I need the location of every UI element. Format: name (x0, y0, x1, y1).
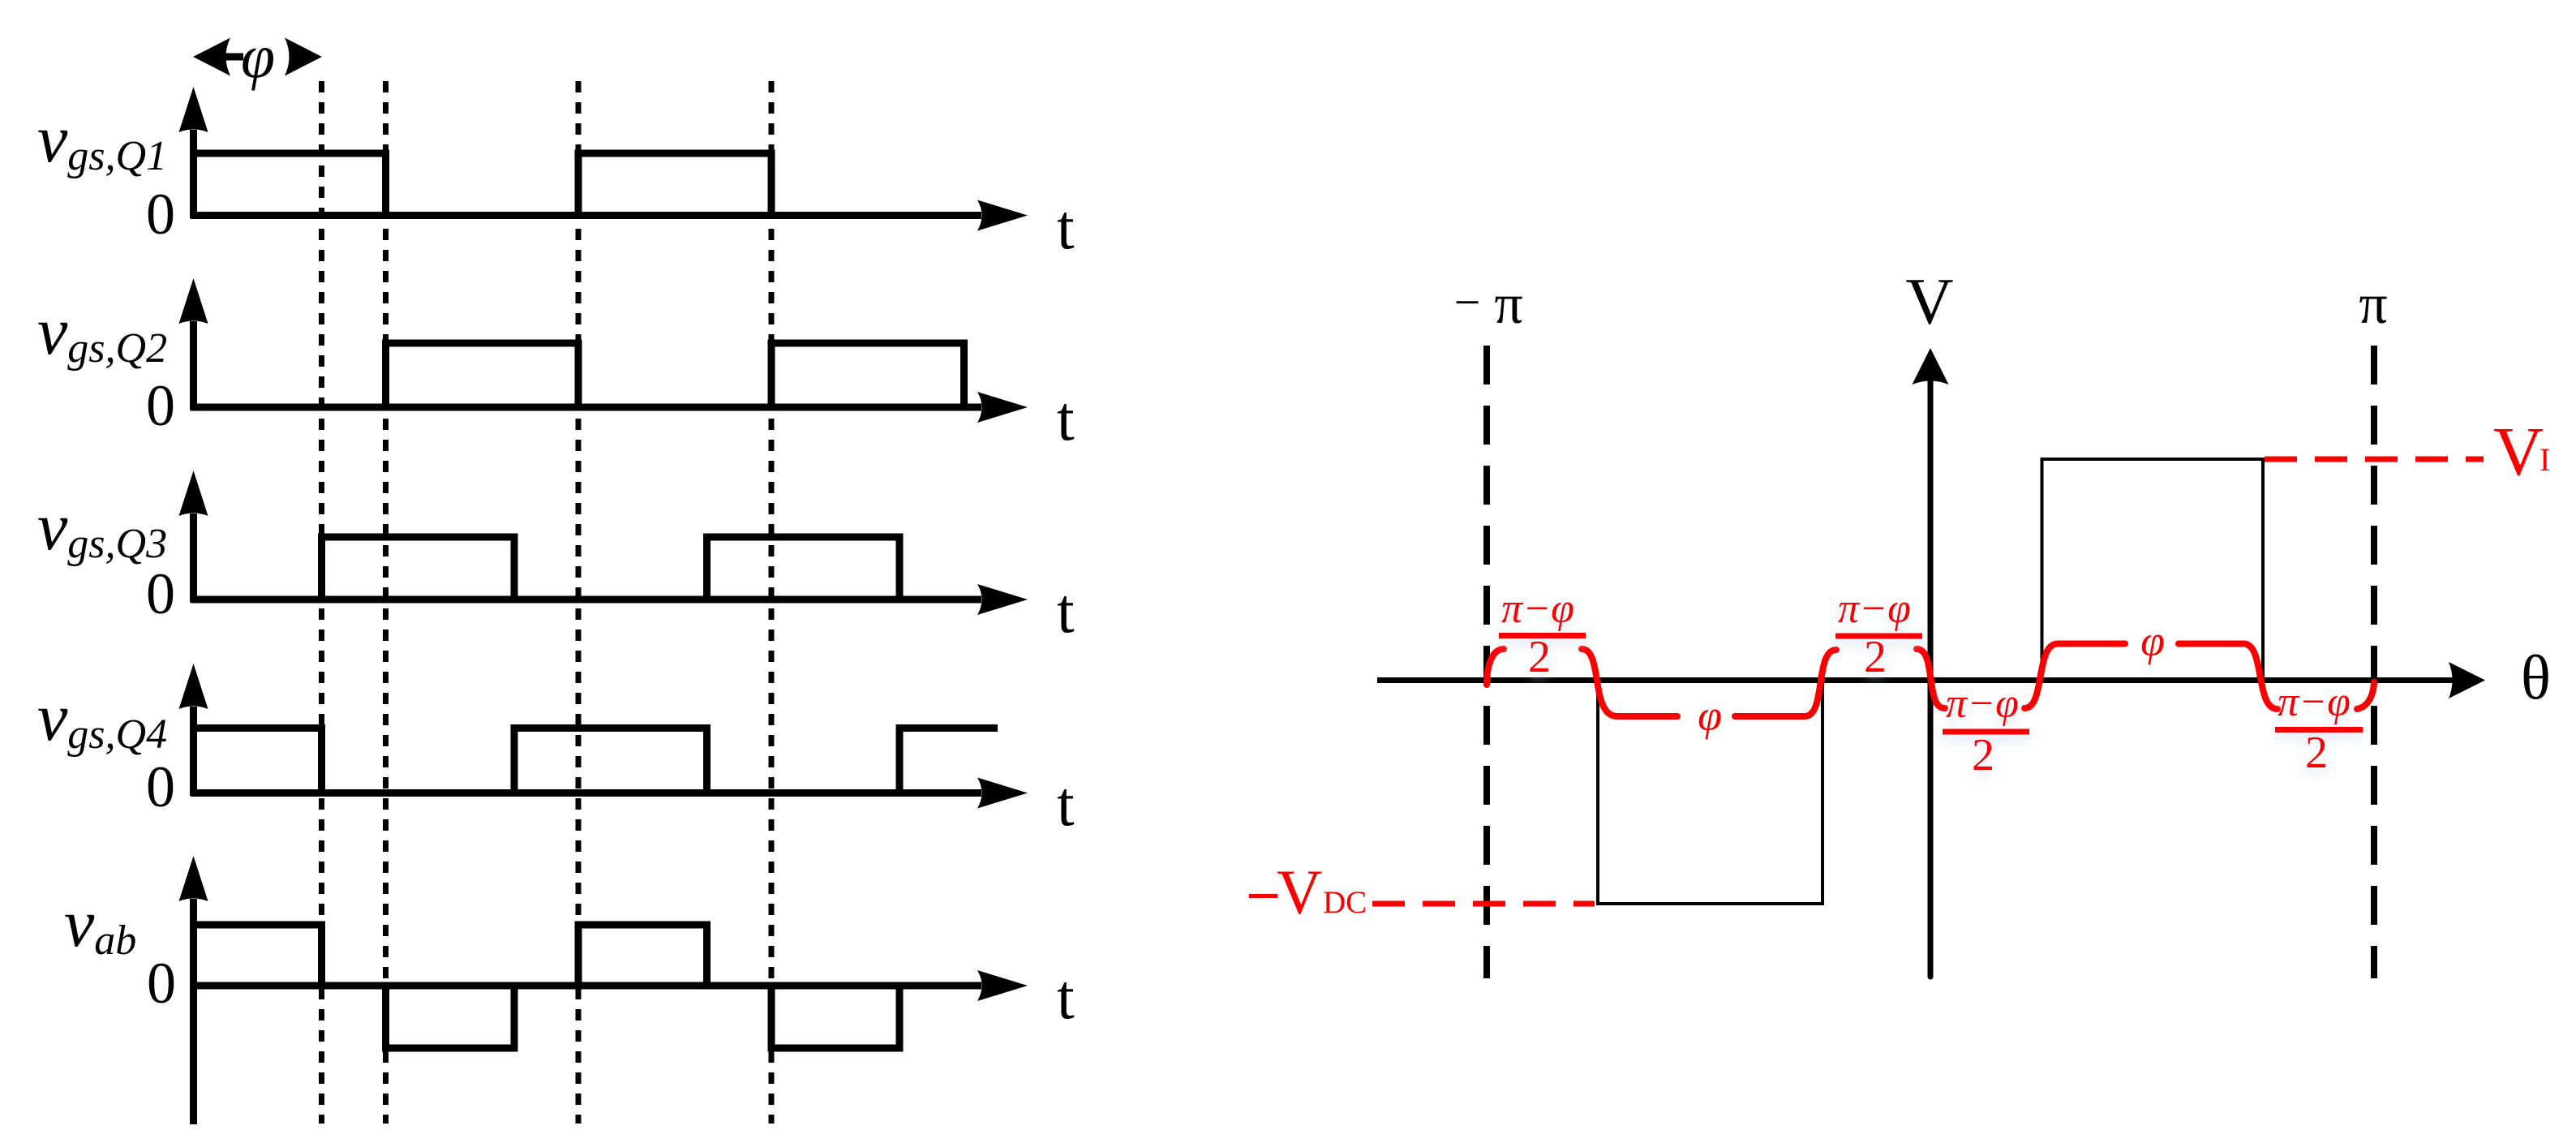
svg-text:2: 2 (1528, 632, 1551, 682)
fraction F4 (pi-phi)/2 below axis near pi (2275, 679, 2363, 778)
time axis vab (191, 982, 981, 990)
svg-text:−: − (1454, 276, 1481, 329)
svg-text:π−φ: π−φ (2278, 679, 2351, 725)
time axis Q2 (191, 404, 981, 411)
svg-text:2: 2 (1972, 730, 1994, 780)
dashed timeline 3 (576, 81, 582, 1124)
svg-text:π: π (2359, 273, 2387, 336)
vertical axis Q2 (190, 321, 197, 410)
segment hook at minus pi (1487, 649, 1504, 685)
svg-text:θ: θ (2521, 642, 2551, 712)
segment transition down at V axis (1917, 649, 1945, 708)
svg-text:DC: DC (1323, 885, 1367, 920)
segment lower plateau right of phi1 rising at 2247 (1735, 650, 1836, 716)
minus VDC red dashed level line (1372, 901, 1595, 907)
dashed timeline 4 (769, 81, 775, 1124)
svg-text:2: 2 (2305, 728, 2328, 778)
svg-text:V: V (2493, 412, 2544, 490)
waveform vgs,Q2 (386, 343, 964, 407)
voltage waveform right (1598, 459, 2263, 904)
svg-text:π−φ: π−φ (1838, 586, 1911, 632)
svg-text:π−φ: π−φ (1501, 586, 1574, 632)
waveform vgs,Q1 (194, 153, 772, 216)
svg-text:0: 0 (146, 754, 175, 819)
vertical axis Q4 (190, 707, 197, 796)
minus VDC label (1249, 894, 1277, 898)
waveform vgs,Q3 (322, 537, 900, 599)
svg-text:φ: φ (241, 23, 275, 91)
svg-text:t: t (1057, 961, 1075, 1032)
svg-text:0: 0 (146, 182, 175, 247)
svg-text:2: 2 (1864, 632, 1887, 682)
time axis Q1 (191, 212, 981, 219)
fraction F2 (pi-phi)/2 above axis left of V axis (1835, 586, 1922, 682)
svg-text:π−φ: π−φ (1946, 681, 2019, 727)
svg-text:t: t (1057, 768, 1075, 839)
svg-text:φ: φ (1698, 691, 1722, 740)
segment rise at 2517 to phi2 plateau (2024, 644, 2125, 709)
svg-text:I: I (2540, 441, 2550, 478)
fraction F1 (pi-phi)/2 above axis near minus pi (1499, 586, 1586, 682)
vertical axis Q3 (190, 513, 197, 603)
VI red dashed level line (2265, 457, 2484, 462)
svg-text:t: t (1057, 191, 1075, 262)
vertical axis Q1 (190, 130, 197, 218)
waveform vab (194, 925, 900, 1048)
svg-text:0: 0 (147, 951, 176, 1016)
segment final hook at pi (2357, 682, 2374, 709)
waveform vgs,Q4 (194, 728, 998, 793)
svg-text:0: 0 (146, 373, 175, 438)
segment upper plateau right of phi2 dropping at 2790 (2179, 644, 2278, 710)
svg-text:t: t (1057, 575, 1075, 646)
dashed timeline 1 (319, 81, 324, 1124)
V axis (1928, 380, 1934, 977)
phi span marker left arrowhead (193, 38, 230, 76)
vertical axis vab (190, 899, 197, 1124)
theta axis (1377, 677, 2453, 683)
svg-text:π: π (1494, 273, 1522, 336)
minus pi dashed line (1483, 346, 1490, 978)
svg-text:0: 0 (146, 561, 175, 626)
phi span marker stub line (224, 54, 243, 61)
dashed timeline 2 (383, 81, 389, 1124)
svg-text:φ: φ (2140, 617, 2165, 665)
time axis Q4 (191, 789, 981, 797)
red phase interval curve (1487, 644, 2374, 717)
phi span marker right arrowhead (285, 38, 322, 76)
fraction F3 (pi-phi)/2 below axis right of V axis (1943, 681, 2029, 780)
plus pi dashed line (2371, 346, 2377, 978)
time axis Q3 (191, 596, 981, 604)
svg-text:t: t (1057, 383, 1075, 453)
svg-text:V: V (1277, 857, 1322, 927)
svg-text:V: V (1905, 264, 1953, 338)
segment transition down at 1970 over phi1 (1582, 649, 1677, 716)
